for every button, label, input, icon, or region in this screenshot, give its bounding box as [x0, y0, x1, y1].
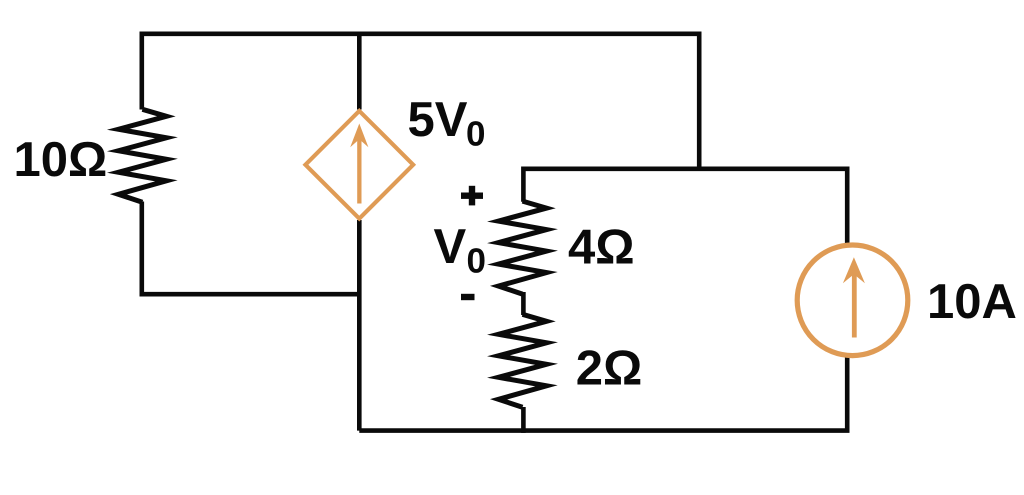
resistor 4ohm zigzag	[499, 201, 547, 294]
svg-text:V: V	[434, 220, 467, 274]
wire between 4ohm and 2ohm	[521, 292, 526, 315]
resistor 10ohm zigzag	[118, 109, 166, 202]
wire left branch lower + bottom-left rail	[142, 202, 359, 295]
wire middle branch lower	[357, 220, 362, 431]
wire bottom rail + right branch lower	[359, 357, 847, 431]
wire middle rail + 4ohm branch drop	[523, 169, 847, 202]
label plus sign	[461, 186, 483, 206]
current source I1 circle	[797, 245, 908, 356]
svg-text:0: 0	[466, 115, 485, 154]
wire top rail with left and right drops	[142, 34, 699, 169]
label minus sign	[461, 294, 475, 300]
resistor 2ohm zigzag	[499, 314, 547, 407]
svg-text:0: 0	[467, 241, 486, 280]
current source arrow	[843, 257, 865, 337]
svg-text:10A: 10A	[927, 275, 1017, 329]
svg-text:4Ω: 4Ω	[568, 221, 635, 275]
svg-text:2Ω: 2Ω	[576, 341, 643, 395]
wire 2ohm to bottom rail	[521, 407, 526, 433]
dependent source arrow	[350, 124, 368, 204]
wire right branch upper	[845, 167, 850, 244]
wire middle branch upper	[357, 32, 362, 110]
svg-text:10Ω: 10Ω	[14, 133, 108, 187]
svg-text:5V: 5V	[408, 93, 468, 147]
dependent source U1 diamond	[305, 111, 413, 219]
